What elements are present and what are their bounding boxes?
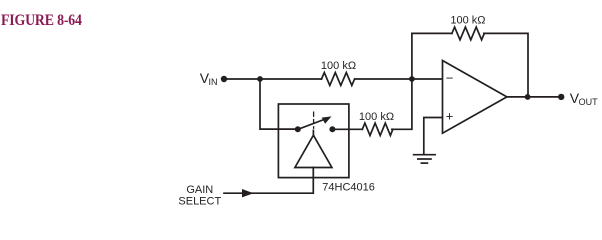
svg-text:74HC4016: 74HC4016 <box>322 182 375 194</box>
svg-text:100 kΩ: 100 kΩ <box>359 111 394 123</box>
svg-text:IN: IN <box>209 77 218 87</box>
svg-text:100 kΩ: 100 kΩ <box>450 15 485 27</box>
svg-text:OUT: OUT <box>579 97 599 107</box>
svg-text:GAIN: GAIN <box>186 184 213 196</box>
svg-text:−: − <box>446 70 454 85</box>
svg-text:SELECT: SELECT <box>178 195 221 207</box>
svg-text:+: + <box>446 108 454 123</box>
svg-text:100 kΩ: 100 kΩ <box>321 60 356 72</box>
